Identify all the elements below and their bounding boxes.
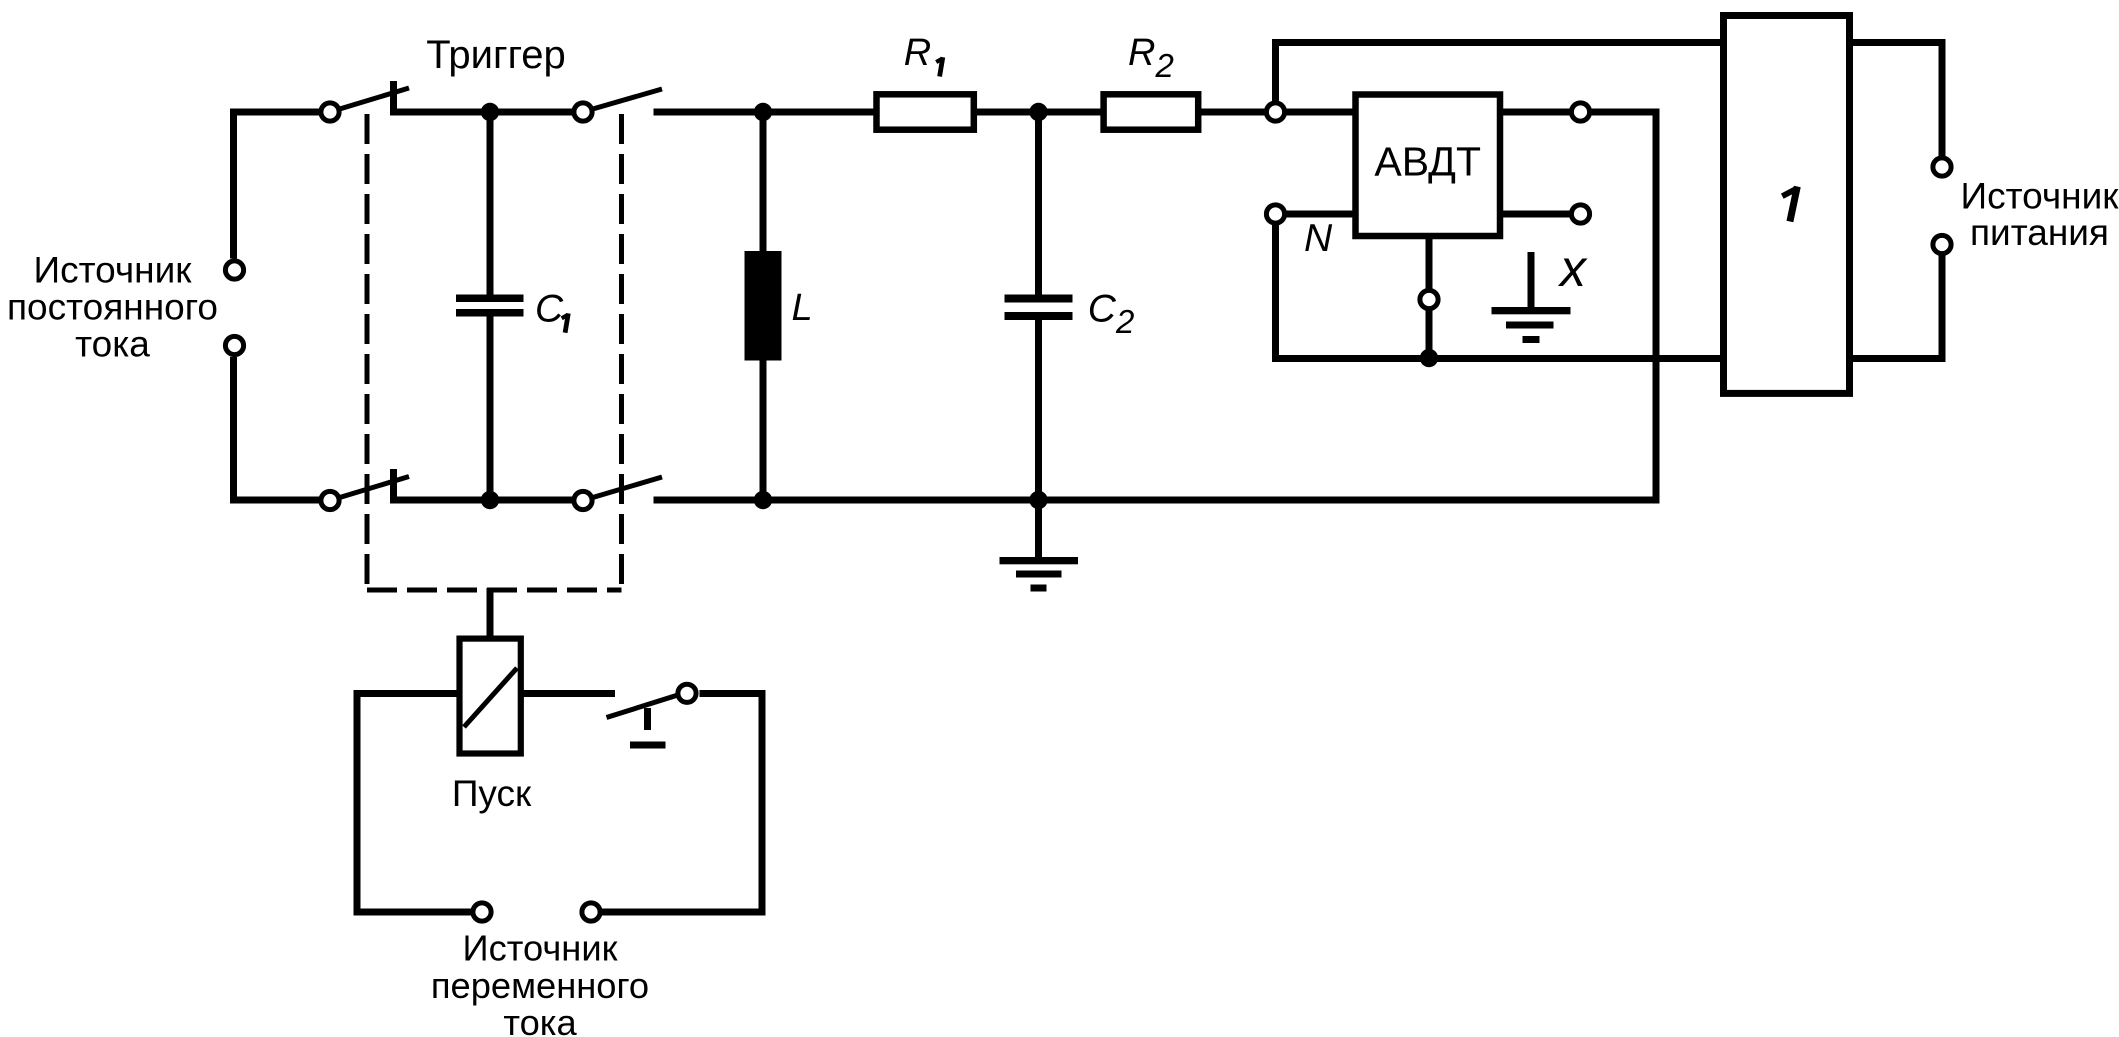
svg-text:тока: тока <box>503 1002 577 1037</box>
wire: AC source bottom rail left <box>354 909 472 916</box>
supply terminal lower <box>1933 235 1951 253</box>
node (C1 bottom junction) <box>481 491 499 509</box>
wire: DC source left vertical lower <box>230 357 237 504</box>
svg-text:Источник: Источник <box>463 928 619 969</box>
svg-text:Источник: Источник <box>1961 175 2119 216</box>
wire: C1 top lead <box>487 112 494 295</box>
wire: top rail after switch S1 tick to node A <box>390 109 572 116</box>
wire: AVDT right bottom pin <box>1500 211 1570 218</box>
earth ground symbol X <box>1492 252 1571 343</box>
wire: push switch to start loop right <box>700 690 766 697</box>
wire: AC source bottom rail right <box>602 909 766 916</box>
wire: terminal P1 to AVDT left top pin <box>1287 109 1354 116</box>
wire: L top lead <box>760 112 767 255</box>
capacitor C1 <box>456 295 524 317</box>
DC source terminal lower <box>225 336 243 354</box>
AC source terminal right <box>582 903 600 921</box>
node (C2 bottom junction) <box>1029 491 1047 509</box>
svg-text:Пуск: Пуск <box>452 773 532 814</box>
capacitor C2 <box>1005 295 1073 321</box>
svg-text:тока: тока <box>75 324 150 365</box>
svg-text:C: C <box>535 288 564 331</box>
wire: riser above terminal P1 <box>1272 43 1279 102</box>
block 1 (measuring instrument) <box>1724 16 1850 394</box>
node (L bottom junction) <box>754 491 772 509</box>
resistor R2 <box>1104 94 1199 129</box>
svg-text:питания: питания <box>1970 212 2109 253</box>
svg-text:Триггер: Триггер <box>426 33 566 77</box>
wire: AVDT bottom pin upper <box>1426 236 1433 290</box>
wire: L bottom lead <box>760 357 767 500</box>
DC source terminal upper <box>225 261 243 279</box>
wire: terminal P2 to corner riser <box>1592 109 1660 116</box>
wire: DC source left vertical upper <box>230 109 237 259</box>
wire: start relay to push switch <box>521 690 615 697</box>
start relay (Pusk) box <box>460 639 521 754</box>
wire: supply right vertical upper <box>1939 39 1946 156</box>
switch S4 (bottom right pole) <box>574 477 662 510</box>
label: Источник питания <box>1961 175 2119 253</box>
svg-text:N: N <box>1304 217 1333 260</box>
label: Источник постоянного тока <box>7 250 218 365</box>
wire: R2 to terminal P1 <box>1200 109 1265 116</box>
wire: feedback top rail to block 1 <box>1272 39 1727 46</box>
terminal N in <box>1266 205 1284 223</box>
start relay diagonal <box>464 668 517 727</box>
node (L top junction) <box>754 103 772 121</box>
node A (C1 top junction) <box>481 103 499 121</box>
trigger dashed enclosure <box>367 114 622 590</box>
wire: block 1 right bottom to supply corner <box>1846 355 1946 362</box>
AC source terminal left <box>473 903 491 921</box>
label: Источник переменного тока <box>431 928 649 1037</box>
wire: start loop right vertical <box>759 690 766 916</box>
terminal N out <box>1571 205 1589 223</box>
wire: bottom rail after switch S4 to corner <box>654 497 1660 504</box>
switch S1 (top left pole) <box>321 81 409 121</box>
svg-text:R: R <box>904 32 931 74</box>
wire: right-side vertical joining bottom rail to top terminal P2 <box>1653 109 1660 504</box>
terminal P2 (AVDT line out) <box>1571 103 1589 121</box>
label: 1 <box>1782 187 1797 222</box>
switch S3 (bottom left pole) <box>321 469 409 510</box>
wire: block 1 right top to supply corner <box>1846 39 1946 46</box>
svg-text:АВДТ: АВДТ <box>1374 139 1481 185</box>
wire: bottom rail left segment <box>230 497 320 504</box>
svg-text:L: L <box>792 287 813 329</box>
wire: trigger output to start relay <box>487 588 494 641</box>
push-button switch S5 <box>607 684 697 745</box>
wire: AVDT left bottom pin N <box>1287 211 1354 218</box>
wire: supply right vertical lower <box>1939 256 1946 363</box>
wire: R1 to node B (C2 top) <box>976 109 1101 116</box>
svg-text:постоянного: постоянного <box>7 287 218 328</box>
wire: bottom rail after switch S3 tick <box>390 497 572 504</box>
wire: AVDT right top pin to terminal P2 <box>1500 109 1570 116</box>
node B (C2 top junction) <box>1029 103 1047 121</box>
wire: N terminal drop <box>1272 225 1279 363</box>
AVDT block (RCBO under test) <box>1356 95 1501 237</box>
terminal P1 (AVDT line in) <box>1266 103 1284 121</box>
svg-text:Источник: Источник <box>34 250 193 291</box>
terminal on AVDT earth pin <box>1420 290 1438 308</box>
wire: C2 top lead <box>1035 112 1042 295</box>
wire: AVDT loop bottom rail to block 1 <box>1272 355 1727 362</box>
wire: start loop left horizontal <box>354 690 460 697</box>
wire: start loop left vertical <box>354 690 361 916</box>
wire: AVDT bottom pin lower <box>1426 310 1433 359</box>
wire: C2 bottom lead and ground stem <box>1035 320 1042 558</box>
inductor L <box>745 251 782 361</box>
svg-text:x: x <box>1557 240 1588 298</box>
svg-text:переменного: переменного <box>431 965 649 1006</box>
switch S2 (top right pole) <box>574 89 662 121</box>
ground symbol below C2 <box>1000 557 1079 592</box>
supply terminal upper <box>1933 158 1951 176</box>
wire: C1 bottom lead <box>487 317 494 501</box>
node (AVDT earth pin junction) <box>1420 349 1438 367</box>
wire: DC source top horizontal <box>230 109 320 116</box>
wire: top rail after switch S2 to R1 <box>654 109 875 116</box>
resistor R1 <box>877 94 974 129</box>
